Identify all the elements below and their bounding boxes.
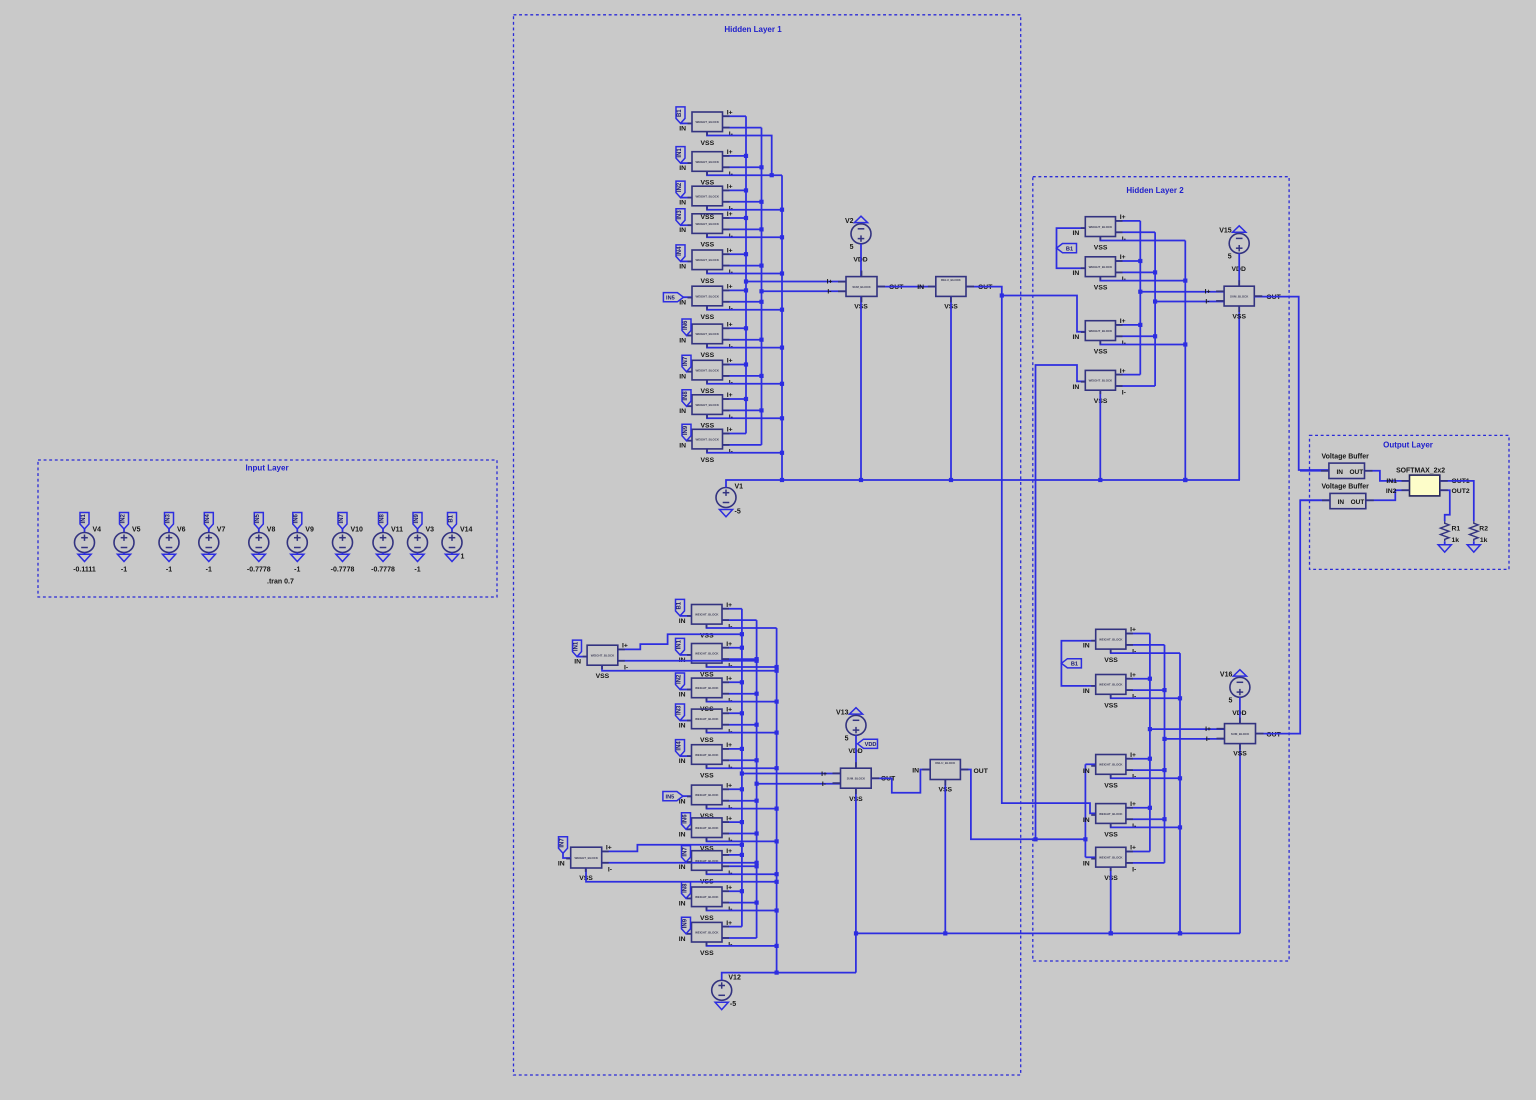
svg-text:IN6: IN6 bbox=[682, 814, 688, 824]
svg-text:VSS: VSS bbox=[701, 352, 715, 359]
svg-text:WEIGHT_BLOCK: WEIGHT_BLOCK bbox=[695, 160, 719, 164]
svg-text:WEIGHT_BLOCK: WEIGHT_BLOCK bbox=[695, 686, 719, 690]
svg-text:1k: 1k bbox=[1452, 537, 1460, 544]
svg-text:IN3: IN3 bbox=[165, 513, 171, 523]
svg-text:IN: IN bbox=[1083, 688, 1090, 695]
svg-text:VSS: VSS bbox=[701, 457, 715, 464]
svg-text:IN2: IN2 bbox=[120, 513, 126, 523]
svg-text:V1: V1 bbox=[735, 484, 744, 491]
svg-text:-0.7778: -0.7778 bbox=[331, 567, 355, 574]
svg-text:Hidden Layer 2: Hidden Layer 2 bbox=[1126, 186, 1184, 195]
svg-text:-0.7778: -0.7778 bbox=[247, 567, 271, 574]
svg-text:I+: I+ bbox=[1205, 726, 1211, 733]
svg-text:-1: -1 bbox=[166, 567, 172, 574]
svg-text:I-: I- bbox=[1122, 236, 1126, 243]
svg-text:-1: -1 bbox=[414, 567, 420, 574]
svg-text:I-: I- bbox=[1122, 390, 1126, 397]
svg-text:VSS: VSS bbox=[700, 915, 714, 922]
svg-text:IN1: IN1 bbox=[1386, 478, 1397, 485]
svg-text:I-: I- bbox=[1132, 774, 1136, 781]
svg-text:VSS: VSS bbox=[700, 671, 714, 678]
svg-text:-5: -5 bbox=[730, 1001, 736, 1008]
svg-text:I-: I- bbox=[1132, 649, 1136, 656]
svg-text:V9: V9 bbox=[305, 527, 314, 534]
svg-text:OUT: OUT bbox=[1351, 499, 1365, 506]
svg-text:R2: R2 bbox=[1479, 525, 1488, 532]
svg-text:IN: IN bbox=[1072, 230, 1079, 237]
svg-text:I-: I- bbox=[822, 781, 826, 788]
svg-text:I+: I+ bbox=[821, 771, 827, 778]
svg-text:IN: IN bbox=[1337, 469, 1344, 476]
svg-text:V14: V14 bbox=[460, 527, 473, 534]
svg-text:-0.7778: -0.7778 bbox=[371, 567, 395, 574]
svg-text:Hidden Layer 1: Hidden Layer 1 bbox=[724, 25, 782, 34]
svg-text:5: 5 bbox=[850, 244, 854, 251]
svg-text:IN3: IN3 bbox=[677, 210, 683, 220]
svg-text:IN: IN bbox=[574, 659, 581, 666]
svg-text:IN: IN bbox=[1083, 817, 1090, 824]
svg-text:WEIGHT_BLOCK: WEIGHT_BLOCK bbox=[695, 826, 719, 830]
svg-text:I-: I- bbox=[1205, 299, 1209, 306]
svg-text:IN1: IN1 bbox=[676, 639, 682, 649]
svg-text:Voltage Buffer: Voltage Buffer bbox=[1322, 453, 1370, 460]
svg-text:IN: IN bbox=[679, 618, 686, 625]
svg-text:IN8: IN8 bbox=[682, 883, 688, 893]
svg-text:IN: IN bbox=[679, 374, 686, 381]
svg-text:IN: IN bbox=[679, 200, 686, 207]
svg-text:IN6: IN6 bbox=[294, 513, 300, 523]
svg-text:WEIGHT_BLOCK: WEIGHT_BLOCK bbox=[1099, 638, 1123, 642]
svg-text:VSS: VSS bbox=[1104, 702, 1118, 709]
svg-text:WEIGHT_BLOCK: WEIGHT_BLOCK bbox=[695, 403, 719, 407]
svg-text:5: 5 bbox=[1228, 697, 1232, 704]
svg-text:V16: V16 bbox=[1220, 671, 1233, 678]
svg-text:-1: -1 bbox=[121, 567, 127, 574]
svg-text:V13: V13 bbox=[836, 709, 849, 716]
svg-text:VSS: VSS bbox=[1094, 349, 1108, 356]
svg-text:IN: IN bbox=[679, 227, 686, 234]
svg-text:WEIGHT_BLOCK: WEIGHT_BLOCK bbox=[695, 332, 719, 336]
svg-text:B1: B1 bbox=[448, 514, 454, 522]
svg-text:IN: IN bbox=[679, 338, 686, 345]
svg-text:IN2: IN2 bbox=[676, 674, 682, 684]
svg-text:IN: IN bbox=[679, 408, 686, 415]
svg-text:OUT: OUT bbox=[1266, 731, 1281, 738]
svg-text:VSS: VSS bbox=[701, 140, 715, 147]
svg-text:Input Layer: Input Layer bbox=[245, 464, 288, 473]
svg-text:WEIGHT_BLOCK: WEIGHT_BLOCK bbox=[695, 294, 719, 298]
svg-text:VSS: VSS bbox=[1104, 782, 1118, 789]
svg-text:IN: IN bbox=[679, 758, 686, 765]
svg-text:SUM_BLOCK: SUM_BLOCK bbox=[852, 285, 871, 289]
svg-text:-1: -1 bbox=[206, 567, 212, 574]
svg-text:WEIGHT_BLOCK: WEIGHT_BLOCK bbox=[695, 222, 719, 226]
svg-text:WEIGHT_BLOCK: WEIGHT_BLOCK bbox=[695, 931, 719, 935]
svg-text:IN: IN bbox=[679, 300, 686, 307]
svg-text:IN: IN bbox=[679, 831, 686, 838]
svg-text:IN: IN bbox=[679, 936, 686, 943]
svg-text:WEIGHT_BLOCK: WEIGHT_BLOCK bbox=[695, 717, 719, 721]
svg-text:VSS: VSS bbox=[1094, 245, 1108, 252]
svg-text:WEIGHT_BLOCK: WEIGHT_BLOCK bbox=[695, 194, 719, 198]
svg-text:I-: I- bbox=[1132, 867, 1136, 874]
svg-text:IN: IN bbox=[679, 165, 686, 172]
svg-text:VSS: VSS bbox=[1104, 831, 1118, 838]
svg-text:IN: IN bbox=[1083, 768, 1090, 775]
svg-text:VSS: VSS bbox=[1104, 657, 1118, 664]
svg-text:IN: IN bbox=[679, 692, 686, 699]
svg-text:RELU_BLOCK: RELU_BLOCK bbox=[941, 278, 962, 282]
svg-text:WEIGHT_BLOCK: WEIGHT_BLOCK bbox=[695, 120, 719, 124]
svg-text:IN9: IN9 bbox=[682, 918, 688, 928]
svg-text:VDD: VDD bbox=[865, 742, 877, 748]
svg-text:WEIGHT_BLOCK: WEIGHT_BLOCK bbox=[574, 856, 598, 860]
svg-text:WEIGHT_BLOCK: WEIGHT_BLOCK bbox=[1099, 856, 1123, 860]
svg-text:V4: V4 bbox=[93, 527, 102, 534]
svg-text:IN5: IN5 bbox=[255, 513, 261, 523]
svg-text:VSS: VSS bbox=[700, 773, 714, 780]
svg-text:WEIGHT_BLOCK: WEIGHT_BLOCK bbox=[695, 652, 719, 656]
svg-text:5: 5 bbox=[845, 735, 849, 742]
svg-text:I-: I- bbox=[1206, 736, 1210, 743]
svg-text:IN8: IN8 bbox=[379, 513, 385, 523]
svg-text:IN4: IN4 bbox=[205, 513, 211, 523]
svg-text:VSS: VSS bbox=[700, 813, 714, 820]
svg-text:WEIGHT_BLOCK: WEIGHT_BLOCK bbox=[695, 258, 719, 262]
svg-text:5: 5 bbox=[1228, 253, 1232, 260]
svg-text:.tran 0.7: .tran 0.7 bbox=[267, 579, 294, 586]
svg-text:V15: V15 bbox=[1219, 227, 1232, 234]
svg-text:VSS: VSS bbox=[596, 673, 610, 680]
svg-text:IN3: IN3 bbox=[676, 705, 682, 715]
svg-text:1k: 1k bbox=[1480, 537, 1488, 544]
svg-text:IN9: IN9 bbox=[683, 425, 689, 435]
svg-text:V8: V8 bbox=[267, 527, 276, 534]
svg-text:V5: V5 bbox=[132, 527, 141, 534]
svg-text:V7: V7 bbox=[217, 527, 226, 534]
svg-text:VSS: VSS bbox=[700, 737, 714, 744]
svg-text:I-: I- bbox=[608, 866, 612, 873]
svg-text:IN7: IN7 bbox=[339, 513, 345, 523]
svg-text:WEIGHT_BLOCK: WEIGHT_BLOCK bbox=[1089, 265, 1113, 269]
svg-text:B1: B1 bbox=[1066, 246, 1073, 252]
svg-text:OUT: OUT bbox=[978, 284, 993, 291]
svg-text:VSS: VSS bbox=[700, 950, 714, 957]
svg-text:V11: V11 bbox=[391, 527, 403, 534]
svg-text:I-: I- bbox=[827, 289, 831, 296]
svg-text:B1: B1 bbox=[677, 109, 683, 117]
svg-text:IN7: IN7 bbox=[559, 838, 565, 848]
svg-text:VSS: VSS bbox=[1094, 285, 1108, 292]
svg-text:1: 1 bbox=[461, 554, 465, 561]
svg-text:IN7: IN7 bbox=[682, 847, 688, 857]
svg-text:IN1: IN1 bbox=[573, 641, 579, 651]
svg-text:OUT: OUT bbox=[974, 768, 989, 775]
svg-text:I-: I- bbox=[1122, 340, 1126, 347]
svg-text:IN1: IN1 bbox=[81, 513, 87, 523]
svg-text:VSS: VSS bbox=[701, 242, 715, 249]
svg-text:-0.1111: -0.1111 bbox=[73, 567, 96, 574]
svg-text:I+: I+ bbox=[827, 278, 833, 285]
svg-text:I+: I+ bbox=[1205, 289, 1211, 296]
svg-text:IN: IN bbox=[1072, 334, 1079, 341]
svg-text:SUM_BLOCK: SUM_BLOCK bbox=[1231, 732, 1250, 736]
svg-text:I-: I- bbox=[1132, 823, 1136, 830]
svg-text:IN4: IN4 bbox=[676, 741, 682, 751]
svg-text:IN: IN bbox=[912, 768, 919, 775]
svg-text:OUT: OUT bbox=[889, 284, 904, 291]
svg-text:B1: B1 bbox=[1071, 662, 1078, 668]
svg-text:IN: IN bbox=[679, 900, 686, 907]
svg-text:VSS: VSS bbox=[700, 846, 714, 853]
svg-text:IN6: IN6 bbox=[683, 320, 689, 330]
svg-text:IN: IN bbox=[679, 799, 686, 806]
svg-text:OUT: OUT bbox=[1266, 294, 1281, 301]
svg-text:WEIGHT_BLOCK: WEIGHT_BLOCK bbox=[1089, 379, 1113, 383]
svg-text:VSS: VSS bbox=[1232, 313, 1246, 320]
svg-text:WEIGHT_BLOCK: WEIGHT_BLOCK bbox=[695, 895, 719, 899]
svg-text:IN: IN bbox=[917, 284, 924, 291]
svg-text:IN5: IN5 bbox=[666, 794, 675, 800]
svg-text:V10: V10 bbox=[351, 527, 364, 534]
svg-text:-5: -5 bbox=[735, 509, 741, 516]
svg-text:V12: V12 bbox=[728, 975, 741, 982]
svg-text:WEIGHT_BLOCK: WEIGHT_BLOCK bbox=[695, 437, 719, 441]
svg-text:I-: I- bbox=[1132, 694, 1136, 701]
svg-text:Output Layer: Output Layer bbox=[1383, 441, 1433, 450]
svg-text:IN4: IN4 bbox=[677, 246, 683, 256]
svg-text:SOFTMAX_2x2: SOFTMAX_2x2 bbox=[1396, 468, 1445, 475]
svg-text:WEIGHT_BLOCK: WEIGHT_BLOCK bbox=[695, 368, 719, 372]
svg-text:I-: I- bbox=[1122, 276, 1126, 283]
svg-text:VSS: VSS bbox=[1233, 751, 1247, 758]
svg-text:V3: V3 bbox=[426, 527, 435, 534]
svg-text:IN: IN bbox=[679, 864, 686, 871]
svg-text:IN: IN bbox=[679, 443, 686, 450]
svg-text:IN5: IN5 bbox=[666, 295, 675, 301]
svg-text:IN9: IN9 bbox=[414, 513, 420, 523]
svg-text:VSS: VSS bbox=[701, 214, 715, 221]
svg-text:IN: IN bbox=[1083, 861, 1090, 868]
svg-text:B1: B1 bbox=[676, 601, 682, 609]
svg-text:IN2: IN2 bbox=[677, 182, 683, 192]
svg-text:IN: IN bbox=[679, 263, 686, 270]
svg-text:WEIGHT_BLOCK: WEIGHT_BLOCK bbox=[1089, 329, 1113, 333]
svg-text:V2: V2 bbox=[845, 218, 854, 225]
svg-text:R1: R1 bbox=[1452, 525, 1461, 532]
svg-text:-1: -1 bbox=[294, 567, 300, 574]
svg-text:WEIGHT_BLOCK: WEIGHT_BLOCK bbox=[1099, 763, 1123, 767]
svg-text:WEIGHT_BLOCK: WEIGHT_BLOCK bbox=[1089, 225, 1113, 229]
svg-text:WEIGHT_BLOCK: WEIGHT_BLOCK bbox=[695, 753, 719, 757]
svg-text:V6: V6 bbox=[177, 527, 186, 534]
svg-text:WEIGHT_BLOCK: WEIGHT_BLOCK bbox=[695, 793, 719, 797]
svg-text:WEIGHT_BLOCK: WEIGHT_BLOCK bbox=[591, 654, 615, 658]
svg-text:IN8: IN8 bbox=[683, 391, 689, 401]
svg-text:OUT: OUT bbox=[1350, 469, 1364, 476]
svg-text:IN1: IN1 bbox=[677, 148, 683, 158]
svg-text:IN7: IN7 bbox=[683, 356, 689, 366]
svg-text:WEIGHT_BLOCK: WEIGHT_BLOCK bbox=[1099, 683, 1123, 687]
svg-text:IN: IN bbox=[1072, 270, 1079, 277]
svg-text:Voltage Buffer: Voltage Buffer bbox=[1322, 484, 1370, 491]
svg-text:SUM_BLOCK: SUM_BLOCK bbox=[847, 777, 866, 781]
svg-text:IN: IN bbox=[1083, 643, 1090, 650]
svg-text:VSS: VSS bbox=[701, 314, 715, 321]
svg-text:IN: IN bbox=[679, 723, 686, 730]
svg-text:IN: IN bbox=[1072, 384, 1079, 391]
svg-text:WEIGHT_BLOCK: WEIGHT_BLOCK bbox=[1099, 812, 1123, 816]
svg-text:IN: IN bbox=[558, 861, 565, 868]
svg-text:RELU_BLOCK: RELU_BLOCK bbox=[935, 761, 956, 765]
svg-text:VSS: VSS bbox=[701, 278, 715, 285]
svg-text:IN2: IN2 bbox=[1386, 488, 1397, 495]
svg-text:WEIGHT_BLOCK: WEIGHT_BLOCK bbox=[695, 613, 719, 617]
svg-text:IN: IN bbox=[1338, 499, 1345, 506]
svg-text:IN: IN bbox=[679, 125, 686, 132]
svg-text:SUM_BLOCK: SUM_BLOCK bbox=[1230, 294, 1249, 298]
svg-text:OUT2: OUT2 bbox=[1452, 488, 1470, 495]
